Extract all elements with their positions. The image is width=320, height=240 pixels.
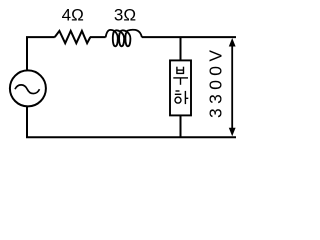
wire: inductor to right end (top extension line) xyxy=(142,36,236,38)
wire: between resistor and inductor xyxy=(90,36,106,38)
resistor R (4 ohm) zigzag xyxy=(55,31,91,43)
glyph HA (Korean 'load' char 2) xyxy=(175,91,189,104)
inductor L (3 ohm) coil: three loops with top humps xyxy=(106,30,142,47)
wire: load bottom drop xyxy=(180,115,182,137)
dimension arrow line (3300V) xyxy=(231,42,233,132)
wire: circle bottom, bottom-left corner, bottom wire to right end xyxy=(27,107,236,138)
svg-text:4Ω: 4Ω xyxy=(62,6,84,25)
svg-text:3Ω: 3Ω xyxy=(114,6,136,25)
AC source sine wave xyxy=(15,85,40,94)
AC source circle xyxy=(10,70,46,106)
load box xyxy=(170,60,191,115)
wire: load top drop xyxy=(180,37,182,60)
glyph BU (Korean 'load' char 1) xyxy=(173,67,188,85)
arrowhead bottom xyxy=(229,128,236,137)
arrowhead top xyxy=(229,38,236,47)
wire: left vertical + top-left corner to resistor xyxy=(27,37,55,70)
